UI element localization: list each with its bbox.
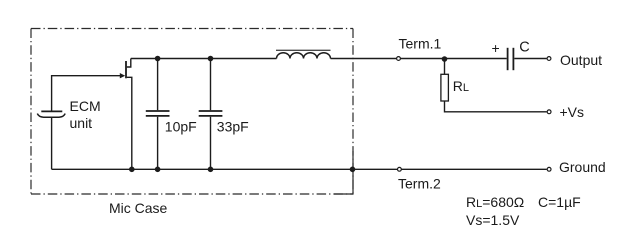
node junction dot C2 bottom <box>208 167 214 173</box>
ECM capsule top plate <box>41 110 62 112</box>
terminal Output open circle <box>547 57 551 61</box>
mic case dashed enclosure left edge <box>30 29 32 195</box>
node junction dot top of C2 <box>208 56 214 62</box>
node junction dot top of C1 <box>155 56 161 62</box>
capacitor C1 plates 10pF <box>146 110 170 112</box>
svg-text:C=1µF: C=1µF <box>538 194 581 210</box>
svg-text:+: + <box>492 40 500 56</box>
wire top rail <box>131 58 277 60</box>
mic case dashed enclosure right edge <box>352 29 354 195</box>
mic case dashed enclosure top edge <box>31 28 353 30</box>
svg-text:Output: Output <box>560 52 602 68</box>
resistor RL lead bottom and wire to +Vs <box>445 101 547 112</box>
wire gate lead from ECM to transistor <box>52 76 122 111</box>
transistor Q1 channel bar <box>125 61 127 78</box>
wire ECM bottom lead <box>51 117 53 169</box>
inductor L1 winding <box>277 53 331 59</box>
wire cap C to output <box>514 58 546 60</box>
wire ground rail <box>52 168 547 170</box>
node junction dot source to ground rail <box>129 167 135 173</box>
terminal Term.1 open circle <box>397 57 401 61</box>
terminal Ground open circle <box>547 167 551 171</box>
svg-text:Mic Case: Mic Case <box>109 200 168 216</box>
svg-text:Term.1: Term.1 <box>399 35 442 51</box>
terminal +Vs open circle <box>547 110 551 114</box>
ECM capsule bottom electrode <box>37 114 65 118</box>
mic case dashed enclosure bottom edge <box>31 193 353 195</box>
transistor Q1 drain lead <box>127 59 131 68</box>
svg-text:unit: unit <box>70 115 93 131</box>
node junction dot C1 bottom <box>155 167 161 173</box>
capacitor C2 top lead <box>210 59 212 111</box>
transistor Q1 gate arrow <box>120 73 125 78</box>
svg-text:ECM: ECM <box>70 98 101 114</box>
svg-text:C: C <box>519 39 529 55</box>
inductor L1 core bar <box>276 49 331 51</box>
capacitor C1 bottom lead <box>157 117 159 170</box>
svg-text:Term.2: Term.2 <box>398 175 441 191</box>
capacitor C2 plates 33pF <box>199 110 223 112</box>
mic case solid corner segment at ground junction <box>334 151 353 194</box>
node junction dot at RL top <box>442 56 448 62</box>
wire top rail right to coupling cap <box>331 58 507 60</box>
svg-text:+Vs: +Vs <box>560 104 585 120</box>
resistor RL lead top <box>444 59 446 74</box>
svg-text:Vs=1.5V: Vs=1.5V <box>466 212 520 228</box>
svg-text:Ground: Ground <box>559 159 606 175</box>
transistor Q1 source lead <box>127 77 132 169</box>
svg-text:10pF: 10pF <box>165 118 197 134</box>
capacitor C1 top lead <box>157 59 159 111</box>
terminal Term.2 open circle <box>398 167 402 171</box>
capacitor C2 bottom lead <box>210 117 212 170</box>
svg-text:33pF: 33pF <box>217 118 249 134</box>
resistor RL body <box>441 74 449 101</box>
svg-text:RL=680Ω: RL=680Ω <box>466 194 524 210</box>
capacitor C plates <box>507 48 509 70</box>
node junction dot case to ground <box>350 167 356 173</box>
